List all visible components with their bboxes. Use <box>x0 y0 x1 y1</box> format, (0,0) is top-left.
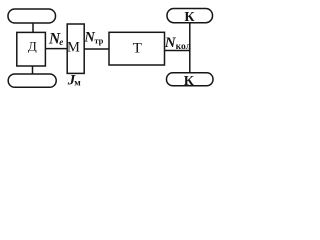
block Т (transmission) <box>109 32 165 65</box>
block М (flywheel) <box>67 24 84 73</box>
wire: top-left wheel to block Д <box>32 23 34 32</box>
svg-text:Т: Т <box>133 40 143 57</box>
wire: Т to rear axle (N_кол shaft) <box>165 50 190 52</box>
wheel top-right <box>167 9 213 23</box>
wheel bottom-right <box>167 73 214 86</box>
wire: М to Т (N_тр shaft) <box>84 48 109 50</box>
wheel bottom-left <box>8 74 56 87</box>
block Д (engine) <box>17 32 46 66</box>
wire: block Д to bottom-left wheel <box>32 66 34 74</box>
wire: rear axle <box>189 23 191 73</box>
svg-text:К: К <box>184 74 195 89</box>
wheel top-left <box>8 9 56 23</box>
svg-text:К: К <box>184 10 195 25</box>
svg-text:Д: Д <box>28 39 37 54</box>
wire: Д to М (N_e shaft) <box>45 48 67 50</box>
svg-text:М: М <box>67 40 80 56</box>
